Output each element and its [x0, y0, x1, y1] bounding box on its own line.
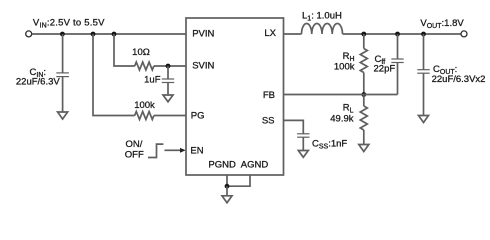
- wire Cff top: [397, 34, 399, 59]
- wire PG branch vertical: [93, 34, 135, 116]
- svg-text:L1: 1.0uH: L1: 1.0uH: [302, 11, 342, 23]
- svg-text:100k: 100k: [134, 100, 155, 111]
- resistor RH: [360, 49, 367, 73]
- svg-text:CIN:22uF/6.3V: CIN:22uF/6.3V: [16, 67, 60, 88]
- svg-text:RL49.9k: RL49.9k: [330, 103, 353, 125]
- wire CIN branch: [62, 34, 64, 73]
- svg-text:AGND: AGND: [241, 160, 269, 171]
- svg-text:SVIN: SVIN: [192, 61, 214, 72]
- wire 1uF to ground: [167, 83, 169, 96]
- output terminal: [461, 31, 467, 37]
- ground RL: [359, 145, 369, 152]
- input terminal: [26, 31, 32, 37]
- resistor 100k (PG pull-up): [135, 112, 154, 120]
- svg-text:Cff22pF: Cff22pF: [374, 54, 396, 75]
- wire FB rail: [284, 94, 398, 96]
- wire RL to ground: [363, 130, 365, 145]
- wire RL top: [363, 95, 365, 107]
- svg-text:FB: FB: [263, 90, 275, 101]
- IC U1 regulator box: [186, 18, 284, 175]
- node Cff tap: [395, 32, 400, 37]
- capacitor CIN: [56, 73, 69, 77]
- EN step waveform symbol: [148, 144, 163, 157]
- svg-text:ON/OFF: ON/OFF: [125, 139, 144, 161]
- ground CIN: [58, 112, 68, 119]
- node SVIN branch tap: [112, 32, 117, 37]
- inductor L1: [302, 23, 343, 34]
- capacitor CSS: [297, 134, 309, 137]
- node RH-FB junction: [361, 92, 366, 97]
- svg-text:10Ω: 10Ω: [132, 47, 150, 58]
- ground COUT: [419, 116, 429, 123]
- wire COUT to ground: [423, 73, 425, 115]
- wire to 1uF: [167, 66, 169, 79]
- wire CSS to ground: [302, 137, 304, 150]
- wire PGND pin: [226, 175, 228, 186]
- capacitor 1uF: [162, 79, 174, 83]
- wire Cff bottom: [397, 63, 399, 95]
- ground CSS: [298, 151, 308, 158]
- svg-text:VIN:2.5V to 5.5V: VIN:2.5V to 5.5V: [33, 18, 105, 30]
- wire COUT branch: [423, 34, 425, 70]
- ground 1uF: [163, 95, 173, 102]
- EN arrow: [165, 149, 181, 151]
- wire output rail: [343, 33, 461, 35]
- node COUT tap: [421, 32, 426, 37]
- wire RH bottom: [363, 73, 365, 95]
- ground IC: [222, 196, 232, 203]
- svg-text:PG: PG: [191, 110, 205, 121]
- node CIN tap: [60, 32, 65, 37]
- capacitor COUT: [417, 70, 429, 74]
- wire LX to inductor: [284, 33, 302, 35]
- node RH tap: [361, 32, 366, 37]
- svg-text:EN: EN: [190, 146, 203, 157]
- svg-text:PVIN: PVIN: [192, 29, 214, 40]
- wire 100k to PG pin: [154, 115, 186, 117]
- resistor 10ohm: [135, 62, 154, 70]
- svg-text:VOUT:1.8V: VOUT:1.8V: [420, 18, 464, 30]
- svg-text:COUT:22uF/6.3Vx2: COUT:22uF/6.3Vx2: [432, 64, 486, 85]
- wire SVIN branch vertical: [114, 34, 135, 66]
- wire RH top: [363, 34, 365, 49]
- svg-text:1uF: 1uF: [144, 75, 161, 86]
- wire input rail: [32, 33, 186, 35]
- svg-text:RH100k: RH100k: [334, 51, 355, 73]
- wire AGND pin: [227, 175, 250, 186]
- resistor RL: [360, 106, 367, 130]
- capacitor Cff: [391, 59, 403, 63]
- wire SS pin: [284, 120, 304, 133]
- svg-text:SS: SS: [262, 115, 275, 126]
- wire CIN to ground: [62, 77, 64, 112]
- wire 10ohm to SVIN pin: [154, 65, 186, 67]
- wire to IC ground: [226, 186, 228, 196]
- svg-text:PGND: PGND: [208, 160, 236, 171]
- svg-text:LX: LX: [264, 28, 276, 39]
- node SVIN cap tap: [166, 64, 171, 69]
- svg-text:CSS:1nF: CSS:1nF: [312, 139, 347, 151]
- node PG branch tap: [91, 32, 96, 37]
- node PGND-AGND junction: [225, 184, 230, 189]
